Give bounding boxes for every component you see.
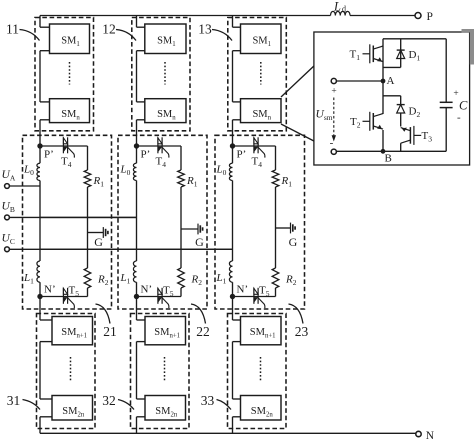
- ellipsis lower arm (leg 3): [260, 357, 262, 381]
- svg-text:32: 32: [102, 393, 116, 408]
- wire left branch (leg 2): [136, 181, 138, 262]
- wire N' to R2 (leg 1): [40, 296, 88, 298]
- submodule SM2n box (leg 3): [241, 396, 282, 421]
- wire left branch (leg 1): [39, 181, 41, 262]
- leader arc 21: [96, 304, 111, 324]
- terminal UC: [5, 247, 10, 252]
- leader arc 22: [191, 304, 206, 324]
- submodule SM2n box (leg 1): [52, 396, 93, 421]
- valve box (leg 2) dashed: [118, 135, 207, 309]
- node P' (leg 1): [37, 143, 42, 148]
- submodule SMn box (leg 3): [241, 99, 282, 123]
- submodule SM2n box (leg 2): [145, 396, 186, 421]
- svg-text:+: +: [453, 89, 458, 99]
- arm box 32 dashed (label 22 box): [131, 314, 190, 429]
- submodule SMn box (leg 1): [50, 99, 90, 123]
- ellipsis upper arm (leg 3): [260, 62, 262, 85]
- inductor L0 (leg 1): [39, 146, 41, 163]
- svg-text:A: A: [387, 75, 395, 87]
- IGBT T3: [409, 127, 411, 144]
- grey scan artifact: [462, 29, 474, 32]
- thyristor T5 (leg 1): [62, 288, 64, 304]
- svg-text:G: G: [289, 235, 298, 249]
- wire phase B rail: [10, 216, 137, 218]
- inductor L0 (leg 2): [136, 146, 138, 163]
- diode D1: [400, 39, 402, 68]
- resistor R1 (leg 2): [178, 170, 185, 187]
- wire chain lower (leg 3): [232, 297, 234, 321]
- wire inset bottom rail: [336, 150, 446, 152]
- svg-text:N’: N’: [44, 284, 56, 296]
- arm box 12 dashed: [132, 18, 190, 131]
- svg-text:21: 21: [103, 324, 117, 339]
- resistor R1 (leg 1): [84, 170, 91, 187]
- diode D2: [400, 96, 402, 105]
- submodule SMn+1 box (leg 1): [52, 317, 93, 345]
- wire A jog to D2 branch: [383, 95, 401, 97]
- ground G (leg 3): [276, 227, 291, 229]
- submodule SM1 box (leg 2): [145, 24, 186, 54]
- inductor Ld: [331, 11, 351, 15]
- svg-text:G: G: [195, 235, 204, 249]
- svg-text:+: +: [331, 87, 336, 97]
- leader arc 32: [118, 400, 134, 410]
- wire chain lower (leg 1): [39, 297, 41, 321]
- ground G (leg 1): [88, 232, 104, 234]
- wire bottom DC bus N: [40, 432, 416, 434]
- inset leader line lower: [281, 124, 314, 141]
- wire N' to R2 (leg 2): [137, 296, 182, 298]
- node B: [381, 149, 386, 154]
- wire right branch (leg 3): [275, 187, 277, 268]
- leader arc 33: [217, 400, 232, 410]
- svg-text:N’: N’: [141, 284, 153, 296]
- leader arc 31: [23, 400, 41, 410]
- ellipsis upper arm (leg 2): [164, 62, 166, 85]
- valve box (leg 3) dashed: [215, 135, 305, 309]
- submodule SMn box (leg 2): [145, 99, 186, 123]
- thyristor T5 (leg 3): [253, 288, 255, 304]
- IGBT T1: [382, 39, 384, 81]
- svg-text:-: -: [457, 112, 461, 124]
- inductor L1 (leg 2): [133, 261, 136, 282]
- submodule SMn+1 box (leg 2): [145, 317, 186, 345]
- IGBT T2: [382, 81, 384, 114]
- svg-text:B: B: [385, 153, 392, 165]
- svg-text:P’: P’: [237, 149, 247, 161]
- svg-text:P’: P’: [141, 149, 151, 161]
- arm box 11 dashed: [35, 18, 94, 131]
- submodule SM1 box (leg 1): [50, 24, 90, 54]
- valve box (leg 1) dashed: [23, 135, 112, 309]
- thyristor T4 (leg 3): [253, 137, 255, 153]
- svg-text:23: 23: [295, 324, 309, 339]
- svg-text:P: P: [427, 11, 433, 23]
- node P' (leg 2): [134, 143, 139, 148]
- resistor R2 (leg 3): [272, 268, 279, 288]
- terminal UA: [5, 184, 10, 189]
- wire N' to R2 (leg 3): [233, 296, 276, 298]
- arm box 33 dashed (label 23 box): [228, 314, 287, 429]
- wire chain upper (leg 2): [136, 16, 138, 28]
- submodule SMn+1 box (leg 3): [241, 317, 282, 345]
- wire right branch (leg 2): [180, 187, 182, 268]
- svg-text:C: C: [459, 99, 468, 113]
- terminal Usm +: [331, 78, 336, 83]
- leader arc 11: [20, 30, 40, 41]
- inductor L0 (leg 3): [232, 146, 234, 163]
- wire top DC bus P: [40, 15, 331, 17]
- wire phase A rail: [10, 185, 40, 187]
- ground G (leg 2): [181, 228, 198, 230]
- resistor R2 (leg 2): [178, 268, 185, 288]
- inset box submodule detail: [314, 32, 470, 165]
- svg-text:22: 22: [196, 324, 210, 339]
- thyristor T4 (leg 1): [62, 137, 64, 153]
- ellipsis upper arm (leg 1): [69, 62, 71, 85]
- capacitor C: [445, 39, 447, 103]
- leader arc 13: [212, 30, 232, 41]
- svg-text:G: G: [94, 235, 103, 249]
- svg-text:N: N: [426, 430, 435, 440]
- svg-text:L: L: [333, 0, 341, 14]
- node N' (leg 2): [136, 282, 138, 296]
- svg-text:d: d: [342, 5, 346, 14]
- thyristor T5 (leg 2): [157, 288, 159, 304]
- terminal N: [416, 431, 421, 436]
- node N' (leg 3): [232, 282, 234, 296]
- leader arc 12: [116, 30, 136, 41]
- wire left branch (leg 3): [232, 181, 234, 262]
- inductor L1 (leg 1): [37, 261, 40, 282]
- thyristor T4 (leg 2): [157, 137, 159, 153]
- svg-text:N’: N’: [237, 284, 249, 296]
- wire phase B rail crossing: [40, 216, 137, 218]
- inductor L1 (leg 3): [229, 261, 232, 282]
- wire phase C rail crossing: [40, 248, 233, 250]
- wire chain upper (leg 3): [232, 16, 234, 28]
- node A: [381, 79, 386, 84]
- wire right branch (leg 1): [87, 187, 89, 268]
- terminal Usm -: [331, 149, 336, 154]
- arm box 13 dashed: [228, 18, 286, 131]
- leader arc 23: [289, 304, 304, 324]
- svg-text:P’: P’: [44, 149, 54, 161]
- wire chain lower (leg 2): [136, 297, 138, 321]
- svg-text:11: 11: [6, 22, 19, 37]
- inset leader line upper: [281, 66, 314, 97]
- wire chain upper (leg 1): [39, 16, 41, 28]
- resistor R1 (leg 3): [272, 170, 279, 187]
- terminal UB: [5, 215, 10, 220]
- wire P' to R1 (leg 2): [137, 145, 182, 147]
- arm box 31 dashed (label 21 box): [37, 314, 96, 429]
- svg-text:12: 12: [102, 22, 116, 37]
- svg-text:13: 13: [198, 22, 212, 37]
- wire terminal to A: [336, 80, 383, 82]
- ellipsis lower arm (leg 2): [164, 357, 166, 381]
- node N' (leg 1): [39, 282, 41, 296]
- ellipsis lower arm (leg 1): [70, 357, 72, 381]
- submodule SM1 box (leg 3): [241, 24, 282, 54]
- svg-text:31: 31: [7, 393, 21, 408]
- terminal P: [415, 13, 421, 19]
- resistor R2 (leg 1): [84, 268, 91, 288]
- svg-text:33: 33: [201, 393, 215, 408]
- wire P' to R1 (leg 3): [233, 145, 276, 147]
- wire P' to R1 (leg 1): [40, 145, 88, 147]
- wire inset top rail: [383, 38, 446, 40]
- wire phase C rail: [10, 248, 233, 250]
- node P' (leg 3): [230, 143, 235, 148]
